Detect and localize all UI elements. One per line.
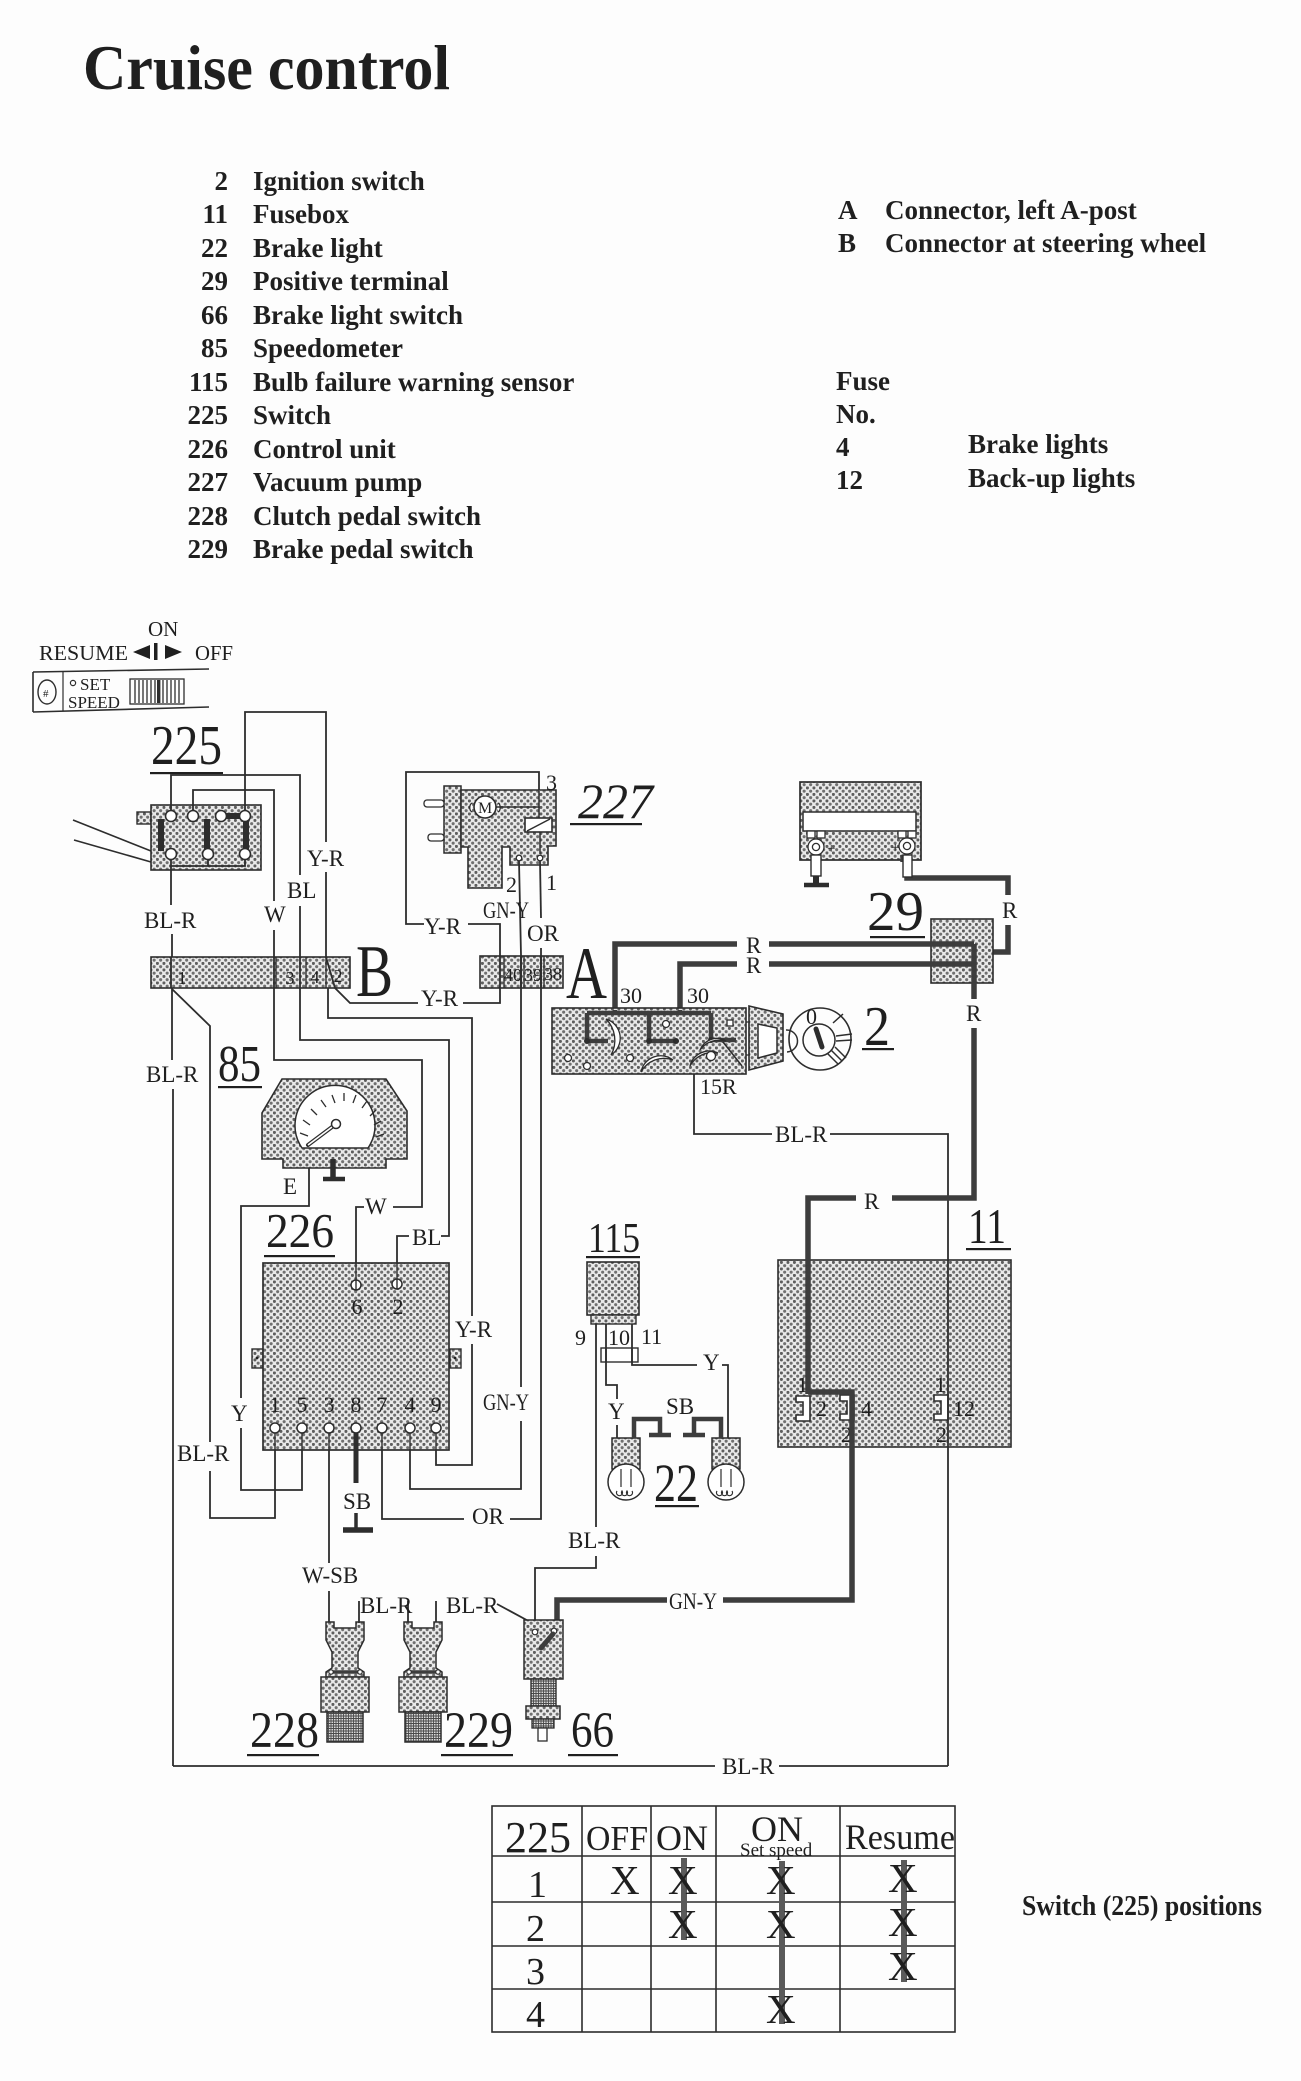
svg-text:225: 225 [188,400,229,430]
brake pedal switch 229 [399,1622,447,1742]
wire M to relay [496,791,539,818]
svg-text:X: X [888,1943,918,1989]
svg-text:No.: No. [836,399,876,429]
right bulb globe [708,1464,744,1500]
switch 225 body [73,805,261,870]
bottom frame wire BL-R [173,1765,715,1767]
svg-text:BL-R: BL-R [446,1593,499,1618]
wire OR from pump pin1 through A to 226 pin7 [540,861,541,918]
svg-text:4: 4 [405,1392,416,1417]
svg-text:29: 29 [867,881,924,943]
fuse 12 [934,1372,975,1447]
svg-text:9: 9 [431,1392,442,1417]
contact bar middle [204,819,210,851]
svg-text:GN-Y: GN-Y [483,1390,529,1415]
pin stubs to box edge [275,1263,436,1450]
wire segments crossing A bar [500,956,541,988]
pump pin stubs left [424,800,444,807]
svg-text:8: 8 [351,1392,362,1417]
svg-text:Clutch pedal switch: Clutch pedal switch [253,501,481,531]
svg-text:R: R [864,1189,880,1214]
svg-text:SB: SB [666,1394,694,1419]
internal thick bus [587,1010,736,1041]
svg-text:38: 38 [544,964,562,984]
svg-text:2: 2 [506,872,517,897]
X marks row 1 [610,1855,918,2032]
svg-text:E: E [283,1174,297,1199]
svg-text:225: 225 [151,715,222,777]
wire BL-R from 115 pin 9 to switch 66 [595,1324,597,1527]
svg-text:R: R [746,953,762,978]
svg-text:R: R [1002,898,1018,923]
svg-text:2: 2 [334,966,343,986]
svg-text:2: 2 [816,1396,827,1421]
svg-text:Brake light switch: Brake light switch [253,300,463,330]
relay box with diagonal [525,818,552,832]
svg-text:29: 29 [201,266,228,296]
svg-text:Switch: Switch [253,400,331,430]
svg-text:OFF: OFF [586,1819,648,1858]
svg-text:5: 5 [297,1392,308,1417]
wire segments crossing B bar [171,957,335,988]
positive terminal 29 box [800,782,921,860]
wire BL-R branch to 226 pin1 [172,989,210,1442]
svg-text:Speedometer: Speedometer [253,333,403,363]
left bulb socket [612,1438,640,1469]
ignition switch 2 [552,983,798,1099]
svg-text:BL-R: BL-R [568,1528,621,1553]
svg-text:1: 1 [935,1372,946,1397]
stalk drawing [33,669,209,712]
svg-text:30: 30 [687,983,709,1008]
wire R thick from junction down through fuse 4 [723,944,974,1600]
contact dots [584,1037,714,1044]
svg-text:Y-R: Y-R [307,846,345,871]
svg-text:#: # [43,688,49,700]
bulb failure sensor 115 [575,1262,662,1362]
svg-text:1: 1 [178,968,187,988]
svg-text:85: 85 [218,1036,261,1093]
svg-text:40: 40 [504,965,522,985]
motor M circle [474,796,496,818]
label 225 [150,715,223,777]
pump mounting plate [444,786,461,853]
svg-text:X: X [766,1857,796,1903]
terminal clamp right [898,831,916,854]
svg-text:Y: Y [703,1350,720,1375]
fuse 4 [840,1395,872,1447]
svg-text:Resume: Resume [845,1817,955,1857]
svg-text:2: 2 [215,166,229,196]
pump pin 2 [516,855,522,861]
svg-text:Control unit: Control unit [253,434,396,464]
svg-text:227: 227 [578,773,655,829]
svg-text:39: 39 [524,965,542,985]
pin P2 [188,811,199,822]
svg-text:X: X [668,1857,698,1903]
contact bar 229 [409,1670,438,1674]
left bulb globe [608,1464,644,1500]
connector B bar [151,957,350,988]
svg-text:A: A [566,933,607,1015]
svg-text:M: M [478,800,492,817]
svg-text:BL-R: BL-R [144,908,197,933]
label 29 [867,881,925,943]
svg-text:X: X [766,1986,796,2032]
svg-text:22: 22 [654,1453,698,1513]
gauge ticks [300,1093,384,1137]
svg-text:229: 229 [444,1703,513,1759]
contact bar top horizontal [221,813,246,819]
svg-text:Positive terminal: Positive terminal [253,266,449,296]
fuse 2 [796,1372,827,1421]
svg-text:2: 2 [936,1422,947,1447]
svg-text:3: 3 [546,770,557,795]
label 22 [654,1453,699,1513]
switch position bar ON [681,1858,687,1940]
svg-text:X: X [766,1901,796,1947]
svg-text:228: 228 [188,501,229,531]
svg-text:X: X [668,1901,698,1947]
svg-text:OFF: OFF [195,641,233,665]
wire BL from 225 P1 to B4 [171,775,300,875]
svg-text:115: 115 [189,367,228,397]
svg-text:Back-up lights: Back-up lights [968,463,1135,493]
ribbed grip [130,679,184,704]
svg-text:7: 7 [377,1392,388,1417]
svg-text:RESUME: RESUME [39,641,128,665]
svg-text:227: 227 [188,467,229,497]
svg-text:ON: ON [656,1818,708,1858]
clutch pedal switch 228 [321,1622,369,1742]
svg-text:4: 4 [861,1396,872,1421]
wire Y-R branch to 226 pin9 [328,988,472,1316]
svg-text:X: X [610,1857,640,1903]
legend right column connectors [836,195,1207,495]
svg-text:A: A [838,195,858,225]
svg-text:6: 6 [352,1294,363,1319]
label 2 [862,996,894,1058]
svg-text:W-SB: W-SB [302,1563,358,1588]
svg-text:0: 0 [806,1004,817,1029]
svg-text:OR: OR [472,1504,505,1529]
control unit 226 [252,1263,461,1450]
svg-text:15R: 15R [700,1074,737,1099]
bottom pin bus wire [171,859,245,866]
svg-text:11: 11 [202,199,228,229]
svg-text:OR: OR [527,921,560,946]
svg-text:Brake pedal switch: Brake pedal switch [253,534,474,564]
svg-text:226: 226 [266,1203,334,1258]
pin P4 [240,811,251,822]
svg-text:3: 3 [286,968,295,988]
wire BL-R from ignition 15R toward fuse 12 [694,1074,772,1134]
svg-text:1: 1 [270,1392,281,1417]
svg-text:Vacuum pump: Vacuum pump [253,467,422,497]
wire BL-R from 225 P5 through B cell1 down left side [170,866,172,905]
svg-text:SET: SET [80,675,111,694]
svg-text:4: 4 [311,967,320,987]
terminal circles [565,1020,734,1070]
pin P7 [240,849,251,860]
wire BL-R between 229 and 66 [435,1601,437,1622]
label 226 [264,1203,335,1258]
svg-text:10: 10 [608,1325,630,1350]
svg-text:+: + [891,840,899,856]
top pin 2 [392,1279,402,1289]
66 pins and lever [532,1629,538,1635]
svg-text:12: 12 [953,1396,975,1421]
svg-text:22: 22 [201,233,228,263]
bottom pins 1 5 3 8 7 4 9 [270,1423,441,1433]
label 227 [570,773,655,829]
svg-text:4: 4 [836,432,850,462]
connector A bar [480,956,563,988]
stalk lever lines [73,820,151,862]
arrow right [165,645,182,659]
pin labels 30 30 15R [620,983,737,1099]
svg-text:Ignition switch: Ignition switch [253,166,425,196]
svg-text:3: 3 [324,1392,335,1417]
brake light switch 66 [524,1620,563,1741]
ground at speedometer [330,1159,336,1177]
lever mark I [154,643,158,660]
table grid [492,1806,955,2032]
switch position bar Resume [901,1860,907,1982]
top pin 6 [351,1280,361,1290]
wire SB brackets between bulbs [634,1419,721,1438]
fusebox 11 [778,1260,1011,1447]
svg-text:85: 85 [201,333,228,363]
right bulb socket [712,1438,740,1469]
svg-text:Y: Y [231,1401,248,1426]
svg-text:B: B [838,228,856,258]
terminal clamp left [807,831,825,855]
svg-text:30: 30 [620,983,642,1008]
contact bar 228 [331,1670,360,1674]
wire from 115 pin 11 [632,1324,697,1365]
svg-text:229: 229 [188,534,229,564]
svg-text:Brake lights: Brake lights [968,429,1108,459]
svg-text:12: 12 [836,465,863,495]
wire BL-R between 228 and 229 [359,1601,408,1623]
ground at 29 left terminal [804,855,829,885]
svg-text:115: 115 [588,1216,640,1262]
svg-text:225: 225 [505,1813,571,1862]
svg-text:BL-R: BL-R [360,1593,413,1618]
label 115 [586,1216,640,1262]
key housing trapezoid [749,1006,783,1070]
svg-text:BL: BL [412,1225,441,1250]
svg-text:11: 11 [968,1198,1006,1254]
label 85 [218,1036,262,1093]
svg-text:GN-Y: GN-Y [669,1589,717,1614]
resistor rect across pins 10-11 [601,1348,638,1362]
svg-text:BL-R: BL-R [722,1754,775,1779]
contact bar left [158,819,164,851]
svg-text:226: 226 [188,434,229,464]
svg-text:BL-R: BL-R [177,1441,230,1466]
label 11 [966,1198,1011,1254]
svg-text:BL-R: BL-R [775,1122,828,1147]
junction box 29 [931,919,993,983]
svg-text:W: W [264,902,286,927]
svg-text:BL: BL [287,878,316,903]
label 228 [247,1703,319,1759]
key cylinder [789,1004,852,1070]
svg-text:ON: ON [148,617,178,641]
svg-text:9: 9 [575,1325,586,1350]
wire GN-Y thick to switch 66 [557,1600,667,1622]
svg-text:GN-Y: GN-Y [483,898,529,923]
svg-text:Fuse: Fuse [836,366,890,396]
svg-text:228: 228 [250,1703,319,1759]
pump main body [461,790,556,888]
svg-text:1: 1 [546,870,557,895]
svg-text:Bulb failure warning sensor: Bulb failure warning sensor [253,367,574,397]
contact bar right [243,818,249,849]
label 66 [568,1703,618,1759]
brake light bulbs 22 [608,1438,744,1500]
svg-text:X: X [888,1855,918,1901]
TABLE [492,1806,1262,2036]
svg-text:Fusebox: Fusebox [253,199,350,229]
wire Y-R from 225 P4 down through B [245,712,326,842]
svg-text:66: 66 [571,1703,614,1759]
arrow left [133,645,150,659]
svg-text:X: X [888,1899,918,1945]
svg-text:4: 4 [526,1994,545,2036]
wire W from 225 P2 to B and 226 pin6 [193,790,274,901]
svg-text:Brake light: Brake light [253,233,383,263]
svg-text:W: W [365,1194,387,1219]
wire R lower to ignition 30 [680,964,974,1010]
svg-text:Switch (225) positions: Switch (225) positions [1022,1891,1262,1922]
svg-text:Y-R: Y-R [455,1317,493,1342]
svg-text:11: 11 [641,1324,662,1349]
svg-text:66: 66 [201,300,228,330]
wire R upper to ignition 30 [615,944,974,1010]
svg-text:2: 2 [526,1908,545,1950]
svg-text:2: 2 [393,1294,404,1319]
svg-text:+: + [827,841,835,857]
pin P1 [166,811,177,822]
vacuum pump 227 body [424,770,557,897]
label 229 [441,1703,513,1759]
pump pin 1 [537,855,543,861]
pin P6 [203,849,214,860]
svg-text:3: 3 [526,1951,545,1993]
wire through fuse 12 down to bottom frame [947,1259,949,1766]
wire R thick from 29 to junction [903,855,1008,952]
svg-text:Y-R: Y-R [424,914,462,939]
wire from 115 pin 10 [606,1324,617,1399]
stalk control legend ON/RESUME/OFF [39,617,233,665]
TITLE-AND-LEGEND [83,32,1207,564]
pin E wire [241,1168,309,1398]
white contact arcs [606,1019,726,1072]
svg-text:SPEED: SPEED [68,693,120,712]
svg-text:B: B [356,931,393,1013]
svg-text:SB: SB [343,1489,371,1514]
svg-text:Y-R: Y-R [421,986,459,1011]
svg-text:R: R [966,1001,982,1026]
speedometer 85 body [241,1079,407,1398]
ground SB at 226 pin8 [343,1433,373,1530]
svg-text:Connector at steering wheel: Connector at steering wheel [885,228,1207,258]
switch position bar ON set speed [779,1861,785,2024]
wire W-SB from 226 pin3 to switch 228 [328,1450,330,1563]
wire GN-Y from pump pin2 through A to 226 pin4 [519,861,521,1387]
needle [308,1124,336,1145]
pin P5 [166,849,177,860]
pin P3 [216,811,227,822]
svg-text:Connector, left A-post: Connector, left A-post [885,195,1137,225]
svg-text:Cruise control: Cruise control [83,32,450,103]
svg-text:Y: Y [608,1399,625,1424]
relay to pin1 [539,832,541,854]
legend left column [188,166,575,564]
svg-text:BL-R: BL-R [146,1062,199,1087]
svg-text:1: 1 [528,1864,547,1906]
